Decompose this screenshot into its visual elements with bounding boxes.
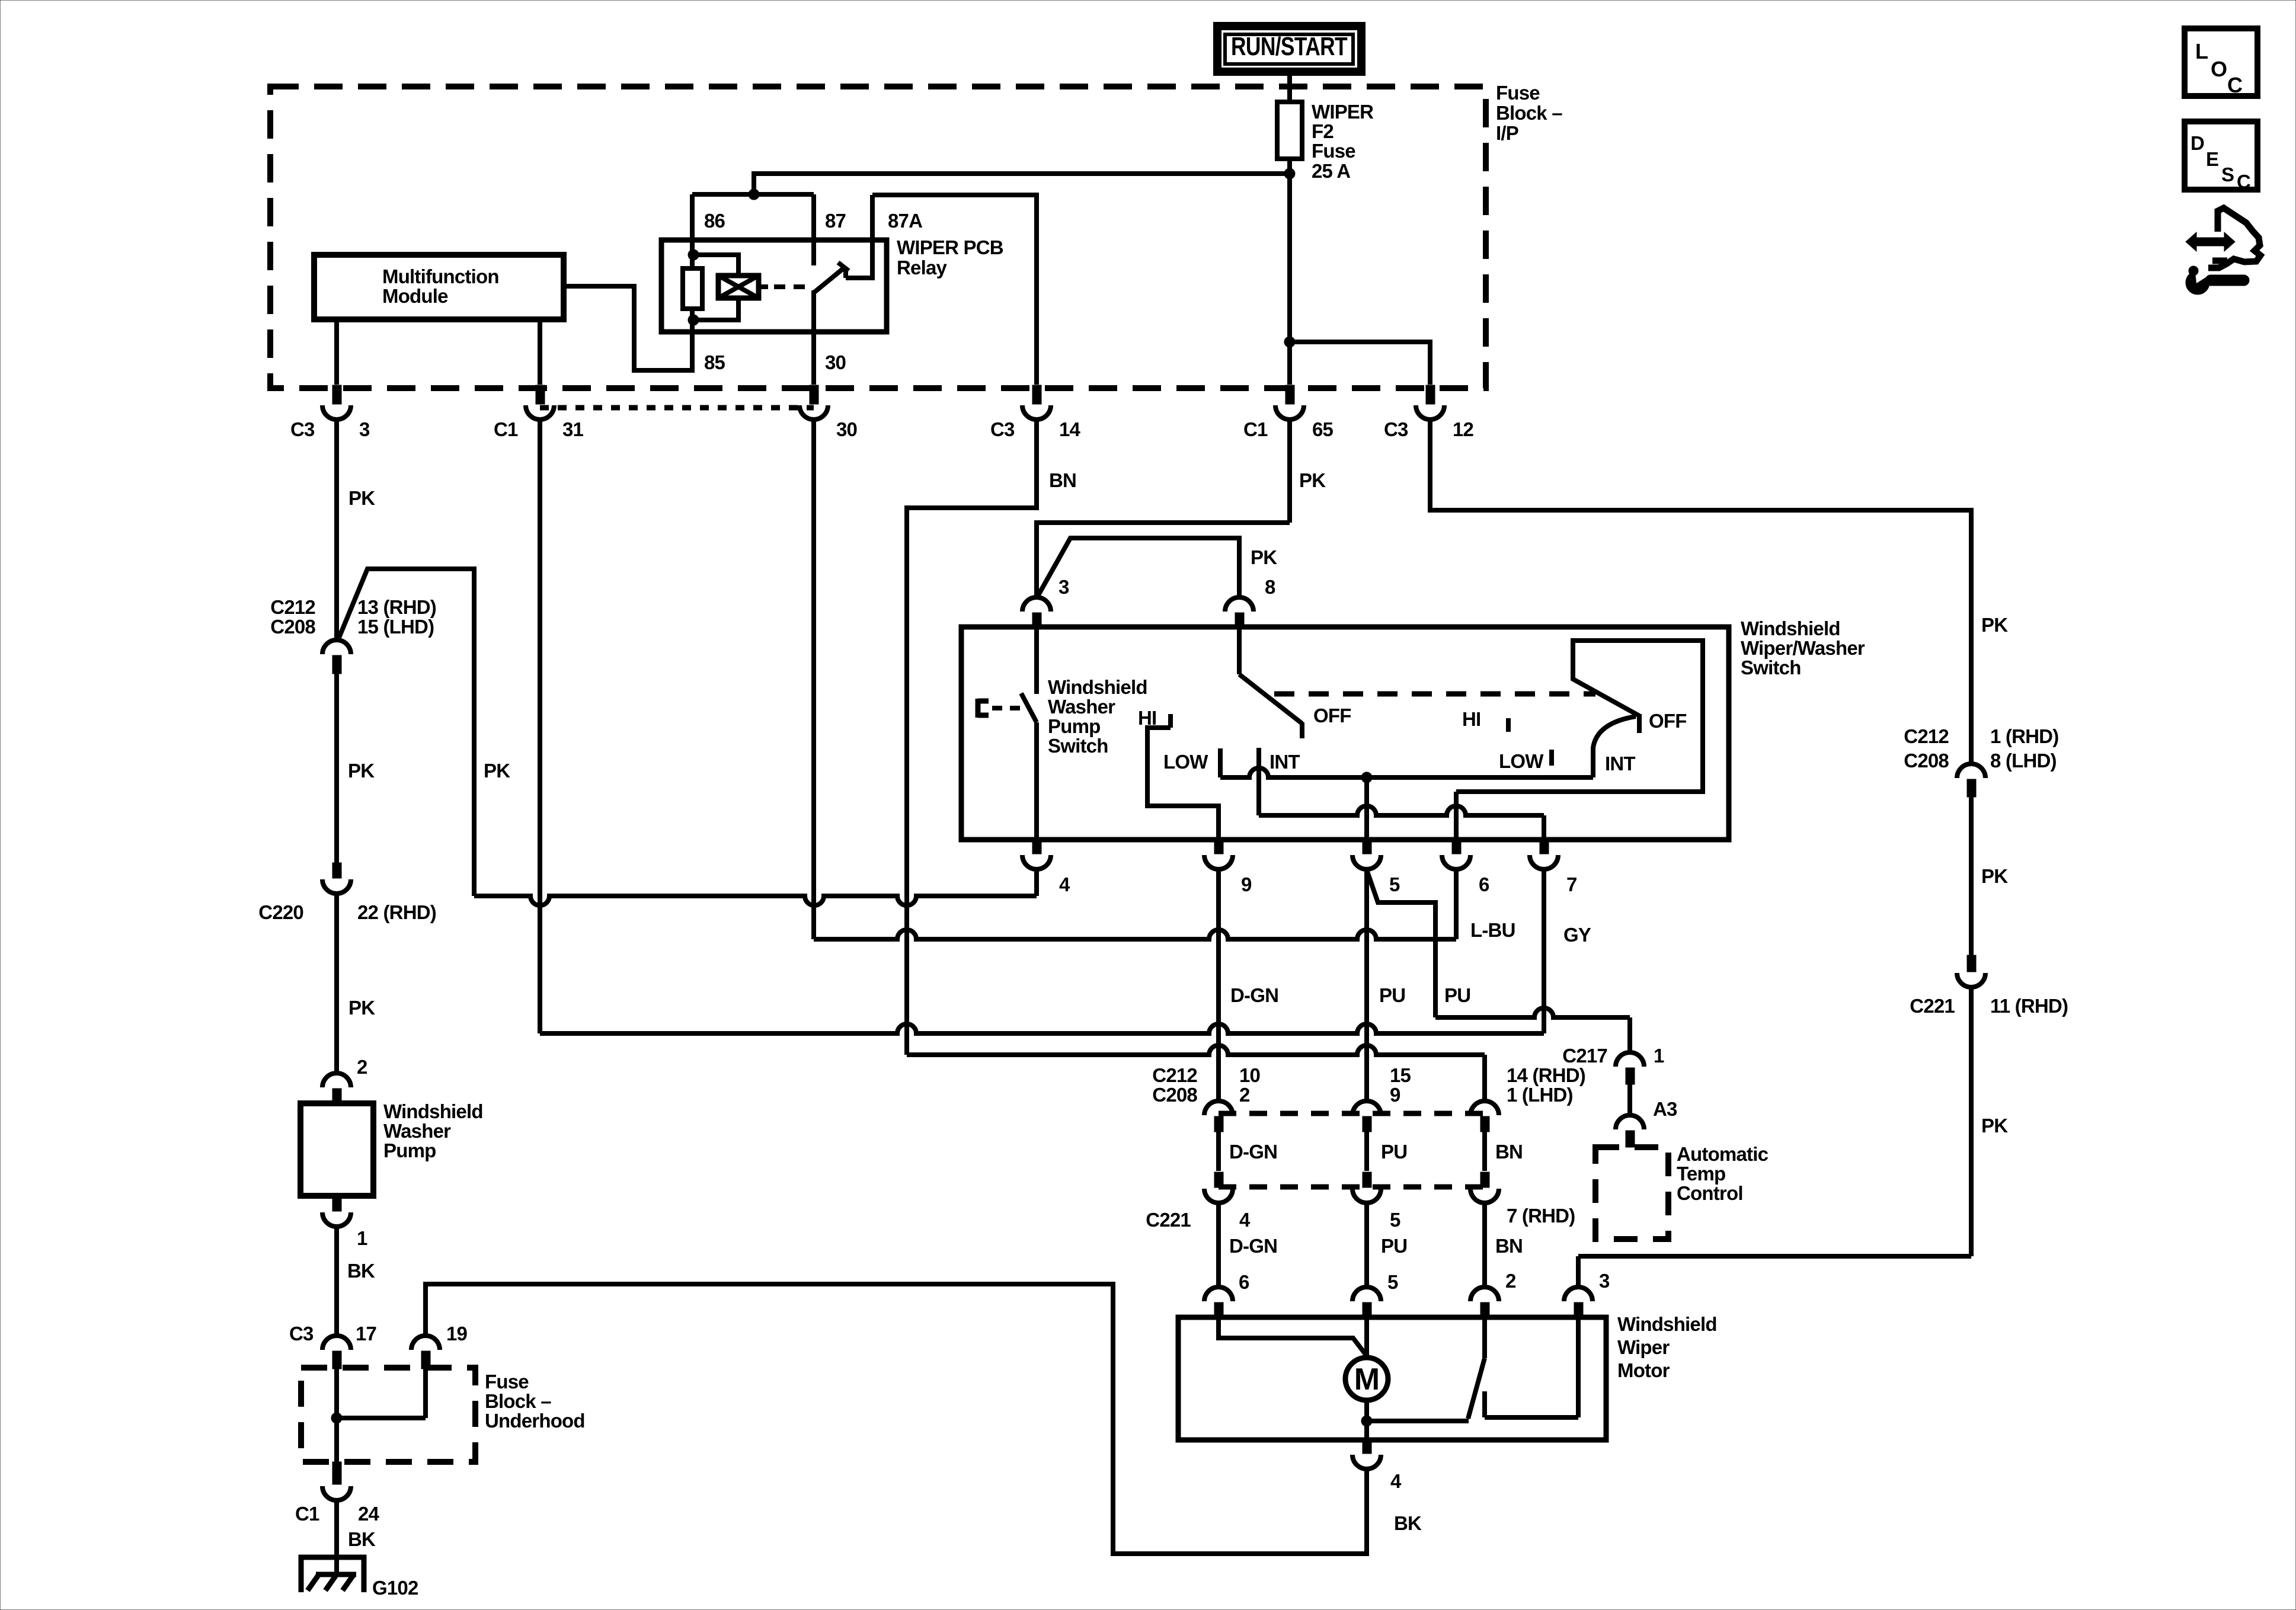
relay label 85 xyxy=(704,351,725,373)
wire col3 between rows xyxy=(1482,1132,1487,1171)
connector C3-17 xyxy=(289,1323,376,1369)
svg-text:PK: PK xyxy=(348,997,375,1019)
connector C220 xyxy=(258,863,436,923)
svg-text:30: 30 xyxy=(836,418,857,440)
connector switch pin 8 xyxy=(1225,576,1275,628)
svg-text:BN: BN xyxy=(1495,1141,1523,1163)
ground G102 xyxy=(299,1555,418,1599)
wire C1-31 to pin7 xyxy=(540,1024,1544,1033)
wire label BK pump xyxy=(347,1260,375,1282)
relay box WIPER PCB xyxy=(661,240,887,332)
wire C3-14 BN down xyxy=(907,418,1037,1055)
connector A3 xyxy=(1616,1098,1677,1147)
relay label 87 xyxy=(825,210,846,232)
svg-text:C220: C220 xyxy=(258,901,303,923)
svg-text:24: 24 xyxy=(358,1503,380,1525)
washer pump box xyxy=(300,1103,373,1196)
svg-text:22 (RHD): 22 (RHD) xyxy=(357,901,436,923)
left wiper switch pivot wire xyxy=(1237,627,1242,674)
wire right rail mid xyxy=(1969,797,1974,955)
left HI label xyxy=(1138,707,1156,729)
switch linkage dashes xyxy=(1274,692,1595,697)
svg-text:5: 5 xyxy=(1390,1209,1400,1231)
svg-text:C: C xyxy=(2227,73,2243,97)
svg-text:2: 2 xyxy=(1239,1084,1250,1106)
svg-text:O: O xyxy=(2211,57,2227,81)
svg-text:7 (RHD): 7 (RHD) xyxy=(1507,1205,1575,1227)
wire branch to C3-12 xyxy=(1290,342,1430,385)
svg-text:C: C xyxy=(2237,171,2250,193)
relay terminal 86 wire xyxy=(690,194,695,255)
motor park fixed contact xyxy=(1485,1319,1578,1417)
svg-text:2: 2 xyxy=(357,1056,367,1078)
svg-text:Windshield: Windshield xyxy=(1741,617,1840,639)
svg-text:C208: C208 xyxy=(1152,1084,1197,1106)
svg-text:C3: C3 xyxy=(290,418,315,440)
relay label 30 xyxy=(825,351,846,373)
wire pump to C3-17 xyxy=(334,1225,339,1336)
wire col1 to motor xyxy=(1216,1202,1221,1287)
svg-text:D: D xyxy=(2191,132,2204,154)
svg-text:6: 6 xyxy=(1479,873,1489,895)
branch pin3 to pin8 wire xyxy=(1038,538,1239,597)
svg-text:30: 30 xyxy=(825,351,846,373)
wire label PK jog xyxy=(484,760,510,782)
connector pump pin 1 xyxy=(322,1196,367,1249)
svg-text:13 (RHD): 13 (RHD) xyxy=(357,596,436,618)
labels C212/C208 mid xyxy=(1152,1064,1585,1106)
fuse block underhood dashed box xyxy=(301,1368,475,1462)
svg-text:I/P: I/P xyxy=(1496,122,1518,144)
washer pump label xyxy=(383,1100,483,1161)
wire label PU upper xyxy=(1379,984,1405,1006)
wire module pin C1-31 xyxy=(538,319,542,385)
svg-text:Wiper/Washer: Wiper/Washer xyxy=(1741,637,1865,659)
svg-text:A3: A3 xyxy=(1653,1098,1677,1120)
svg-text:Windshield: Windshield xyxy=(383,1100,483,1122)
connector C221 right xyxy=(1910,955,2068,1017)
svg-text:C221: C221 xyxy=(1910,995,1955,1017)
svg-text:31: 31 xyxy=(562,418,584,440)
svg-text:86: 86 xyxy=(704,210,725,232)
svg-text:BN: BN xyxy=(1495,1235,1523,1257)
svg-text:L-BU: L-BU xyxy=(1470,919,1515,941)
wire 17 inside fuse block xyxy=(334,1369,339,1462)
fuse block underhood label xyxy=(485,1371,585,1432)
svg-text:Fuse: Fuse xyxy=(1312,140,1355,162)
wire col2 to motor xyxy=(1364,1202,1369,1287)
wire pump switch to pin 4 xyxy=(1034,722,1039,840)
svg-text:BK: BK xyxy=(347,1260,375,1282)
svg-text:9: 9 xyxy=(1241,873,1252,895)
relay fixed contact 87A xyxy=(846,195,872,278)
wire motor M to junction xyxy=(1364,1400,1369,1440)
svg-text:1: 1 xyxy=(1654,1045,1664,1067)
wire label PU branch xyxy=(1444,984,1470,1006)
svg-text:Wiper: Wiper xyxy=(1617,1336,1670,1358)
connector C3 3 xyxy=(290,385,370,440)
svg-text:C1: C1 xyxy=(494,418,518,440)
svg-text:Fuse: Fuse xyxy=(1496,82,1540,104)
wire C1-24 to ground xyxy=(334,1499,339,1574)
svg-text:GY: GY xyxy=(1563,924,1591,946)
wire C1-31 down xyxy=(538,418,542,1033)
wire label PK right upper xyxy=(1981,614,2008,636)
connector pump pin 2 xyxy=(322,1056,367,1104)
relay coil top branch xyxy=(693,255,738,277)
fuse block I/P label xyxy=(1496,82,1562,144)
multifunction module label xyxy=(382,265,499,307)
DESC icon xyxy=(2185,121,2257,193)
branch C212-13 jog wire xyxy=(339,569,474,896)
svg-text:87A: 87A xyxy=(888,210,922,232)
wire C212 to C220 xyxy=(334,674,339,864)
relay coil xyxy=(718,276,759,298)
svg-text:87: 87 xyxy=(825,210,846,232)
wire label PK C1-65 xyxy=(1299,469,1326,491)
svg-text:PU: PU xyxy=(1379,984,1405,1006)
fuse F2 WIPER 25A xyxy=(1277,102,1302,159)
svg-text:Control: Control xyxy=(1677,1182,1743,1204)
windshield wiper/washer switch box xyxy=(961,627,1729,840)
svg-text:INT: INT xyxy=(1605,753,1635,774)
svg-text:5: 5 xyxy=(1389,873,1400,895)
svg-text:17: 17 xyxy=(356,1323,376,1345)
wire label GY xyxy=(1563,924,1591,946)
svg-text:BK: BK xyxy=(1394,1512,1422,1534)
labels C221 row xyxy=(1146,1205,1575,1231)
connector C212/C208 col2 xyxy=(1352,1101,1381,1132)
svg-text:Washer: Washer xyxy=(1048,696,1115,718)
wire label PK C3-3 xyxy=(348,487,375,509)
svg-text:Underhood: Underhood xyxy=(485,1410,585,1432)
wire motor pin5 internal xyxy=(1364,1319,1369,1358)
left wiper switch blade xyxy=(1239,674,1302,724)
relay label 87A xyxy=(888,210,922,232)
connector switch pin 5 xyxy=(1352,838,1400,895)
switch rail INT-pin7 xyxy=(1259,806,1544,840)
svg-text:M: M xyxy=(1354,1362,1380,1397)
labels colors mid1 xyxy=(1229,1141,1523,1163)
svg-text:Washer: Washer xyxy=(383,1120,451,1142)
svg-text:Windshield: Windshield xyxy=(1048,676,1147,698)
svg-text:D-GN: D-GN xyxy=(1230,984,1278,1006)
svg-text:4: 4 xyxy=(1390,1470,1402,1492)
wire col2 between rows xyxy=(1364,1132,1369,1171)
svg-text:Fuse: Fuse xyxy=(485,1371,529,1393)
relay coil top junction xyxy=(688,249,699,260)
svg-text:PK: PK xyxy=(1981,1115,2008,1137)
connector C221 col1 xyxy=(1204,1172,1233,1203)
svg-text:6: 6 xyxy=(1239,1271,1249,1293)
motor park switch blade xyxy=(1468,1319,1485,1419)
relay label 86 xyxy=(704,210,725,232)
connector C212/C208 col1 xyxy=(1204,1101,1233,1132)
wire label BN C3-14 xyxy=(1049,469,1076,491)
svg-text:PK: PK xyxy=(484,760,510,782)
junction relay 86/87 feed xyxy=(749,189,759,200)
svg-text:14: 14 xyxy=(1059,418,1081,440)
svg-text:F2: F2 xyxy=(1312,120,1334,142)
right HI tick xyxy=(1506,718,1511,732)
wire C217 to A3 xyxy=(1627,1084,1632,1115)
connector C1-24 xyxy=(295,1462,380,1525)
connector switch pin 4 xyxy=(1022,838,1070,895)
wire C1-65 to switch pin 3 xyxy=(1037,523,1290,597)
switch rail LOW-pin5 xyxy=(1220,768,1593,777)
wire C3-3 to C212 xyxy=(334,418,339,640)
svg-text:7: 7 xyxy=(1566,873,1577,895)
svg-text:PK: PK xyxy=(348,487,375,509)
connector C1 65 xyxy=(1243,385,1334,440)
washer pump switch label xyxy=(1048,676,1147,757)
washer pump switch contact wire xyxy=(1034,627,1039,694)
svg-text:Pump: Pump xyxy=(383,1140,436,1161)
svg-text:Temp: Temp xyxy=(1677,1163,1725,1185)
relay coil bottom junction xyxy=(688,315,699,325)
connector C1 31 xyxy=(494,385,584,440)
svg-text:8 (LHD): 8 (LHD) xyxy=(1990,750,2057,772)
wire fuse junction to relay coil feed xyxy=(754,174,1290,194)
connector switch pin 3 xyxy=(1022,576,1069,628)
svg-text:PK: PK xyxy=(348,760,375,782)
svg-text:L: L xyxy=(2195,39,2208,63)
fuse F2 label xyxy=(1312,101,1374,182)
relay terminal 87 wire xyxy=(811,194,816,265)
svg-text:25 A: 25 A xyxy=(1312,160,1350,182)
wire label BK ground xyxy=(348,1528,376,1550)
svg-text:C212: C212 xyxy=(1152,1064,1197,1086)
svg-text:C212: C212 xyxy=(1904,725,1949,747)
svg-text:2: 2 xyxy=(1505,1270,1516,1292)
wire motor pin6 internal xyxy=(1219,1319,1367,1356)
wire 17-19 link xyxy=(337,1416,426,1420)
dotted connector body line C1 xyxy=(540,405,814,411)
svg-text:INT: INT xyxy=(1269,751,1300,773)
connector C217 xyxy=(1562,1045,1664,1084)
left LOW contact tick xyxy=(1218,748,1223,777)
svg-text:D-GN: D-GN xyxy=(1229,1235,1277,1257)
svg-text:Switch: Switch xyxy=(1741,657,1801,678)
wire right rail lower xyxy=(1578,986,1971,1287)
wire pin7 GY down xyxy=(1542,868,1546,1033)
svg-text:C208: C208 xyxy=(270,616,315,638)
svg-text:8: 8 xyxy=(1265,576,1275,598)
right section feed path xyxy=(1456,641,1703,840)
multifunction module box xyxy=(314,255,564,319)
svg-text:BN: BN xyxy=(1049,469,1076,491)
svg-text:RUN/START: RUN/START xyxy=(1231,32,1348,61)
wire label PK right lower xyxy=(1981,1115,2008,1137)
connector C221 col3 xyxy=(1470,1172,1499,1203)
wiper motor label xyxy=(1617,1313,1717,1381)
svg-text:Automatic: Automatic xyxy=(1677,1143,1769,1165)
right LOW label xyxy=(1499,750,1544,772)
connector 30 xyxy=(800,385,857,440)
svg-text:Switch: Switch xyxy=(1048,735,1108,757)
svg-text:15: 15 xyxy=(1390,1064,1411,1086)
svg-text:PK: PK xyxy=(1981,865,2008,887)
wire module output to relay 85 xyxy=(564,286,692,370)
svg-text:4: 4 xyxy=(1059,873,1070,895)
adjust icon panel outline xyxy=(2208,208,2260,268)
connector switch pin 7 xyxy=(1530,838,1577,895)
left OFF label xyxy=(1313,705,1351,726)
svg-text:15 (LHD): 15 (LHD) xyxy=(357,616,434,638)
svg-text:14 (RHD): 14 (RHD) xyxy=(1507,1064,1585,1086)
svg-text:1 (RHD): 1 (RHD) xyxy=(1990,725,2058,747)
labels colors mid2 xyxy=(1229,1235,1523,1257)
svg-text:Motor: Motor xyxy=(1617,1359,1670,1381)
wire label L-BU xyxy=(1470,919,1515,941)
connector motor pin 5 xyxy=(1352,1271,1398,1319)
svg-text:Block –: Block – xyxy=(1496,102,1562,124)
svg-text:C208: C208 xyxy=(1904,750,1949,772)
svg-text:PU: PU xyxy=(1444,984,1470,1006)
svg-text:65: 65 xyxy=(1312,418,1334,440)
junction fuse output xyxy=(1284,168,1295,179)
LOC icon xyxy=(2185,28,2257,97)
left INT label xyxy=(1269,751,1300,773)
wire junction to park contact xyxy=(1367,1419,1469,1423)
right OFF label xyxy=(1649,710,1687,732)
connector body dashes C212/C208 mid xyxy=(1219,1111,1485,1116)
svg-text:D-GN: D-GN xyxy=(1229,1141,1277,1163)
wire C220 to pump pin 2 xyxy=(334,892,339,1073)
wire 30 to pin6 L-BU xyxy=(814,868,1456,939)
windshield wiper motor box xyxy=(1178,1317,1606,1440)
connector motor pin 3 xyxy=(1564,1270,1610,1319)
svg-text:E: E xyxy=(2206,148,2218,170)
connector C221 col2 xyxy=(1352,1172,1381,1203)
connector C212/C208 right xyxy=(1904,725,2058,797)
svg-text:9: 9 xyxy=(1390,1084,1400,1106)
svg-text:10: 10 xyxy=(1239,1064,1260,1086)
svg-text:C1: C1 xyxy=(1243,418,1268,440)
svg-text:PU: PU xyxy=(1381,1141,1407,1163)
wire RUN/START to fuse F2 xyxy=(1287,72,1292,104)
connector C212/C208 col3 xyxy=(1470,1101,1499,1132)
wire pin4 to C212-13 jog xyxy=(474,868,1037,905)
svg-text:Block –: Block – xyxy=(485,1390,551,1412)
svg-text:Multifunction: Multifunction xyxy=(382,265,499,287)
connector motor pin 2 xyxy=(1470,1270,1516,1319)
switch name label xyxy=(1741,617,1865,678)
connector switch pin 6 xyxy=(1442,838,1489,895)
relay terminal 85 wire xyxy=(690,320,695,370)
wire label PK left xyxy=(348,760,375,782)
svg-text:Pump: Pump xyxy=(1048,715,1100,737)
adjust icon arrow xyxy=(2186,232,2235,251)
right OFF contact tick xyxy=(1637,714,1642,733)
wire label PK right mid xyxy=(1981,865,2008,887)
relay terminal 30 wire xyxy=(811,290,816,385)
wire C1-65 down xyxy=(1287,418,1292,523)
connector C3 12 xyxy=(1384,385,1474,440)
branch pin5 to C217 xyxy=(1367,870,1630,1052)
svg-text:1 (LHD): 1 (LHD) xyxy=(1507,1084,1573,1106)
washer pump switch blade xyxy=(1021,693,1037,722)
svg-text:PU: PU xyxy=(1381,1235,1407,1257)
relay coil bottom branch xyxy=(693,298,738,320)
junction ignition feed split xyxy=(1284,337,1295,347)
svg-text:PK: PK xyxy=(1981,614,2008,636)
svg-text:3: 3 xyxy=(1059,576,1069,598)
wire col3 to motor xyxy=(1482,1202,1487,1287)
svg-text:C3: C3 xyxy=(289,1323,314,1345)
svg-text:12: 12 xyxy=(1453,418,1474,440)
svg-text:C3: C3 xyxy=(1384,418,1408,440)
ignition feed RUN/START box xyxy=(1217,26,1361,72)
svg-text:85: 85 xyxy=(704,351,725,373)
left OFF contact tick xyxy=(1300,722,1304,738)
left LOW label xyxy=(1163,751,1208,773)
svg-text:C217: C217 xyxy=(1562,1045,1607,1067)
svg-text:C3: C3 xyxy=(990,418,1015,440)
wire motor pin4 BK xyxy=(426,1284,1367,1554)
svg-text:11 (RHD): 11 (RHD) xyxy=(1990,995,2068,1017)
right INT label xyxy=(1605,753,1635,774)
wire col1 between rows xyxy=(1216,1132,1221,1171)
wire fuse to junction xyxy=(1287,159,1292,385)
wire pin5 down xyxy=(1364,868,1369,1101)
svg-text:LOW: LOW xyxy=(1163,751,1208,773)
automatic temp control dashed box xyxy=(1595,1147,1668,1239)
svg-text:Windshield: Windshield xyxy=(1617,1313,1717,1335)
svg-text:19: 19 xyxy=(446,1323,468,1345)
svg-text:Module: Module xyxy=(382,285,448,307)
wire label D-GN upper xyxy=(1230,984,1278,1006)
svg-text:OFF: OFF xyxy=(1313,705,1351,726)
svg-text:4: 4 xyxy=(1239,1209,1251,1231)
wire 30 down xyxy=(811,418,816,939)
connector C3 14 xyxy=(990,385,1081,440)
wire module pin C3-3 xyxy=(334,319,339,385)
right LOW tick xyxy=(1549,750,1554,766)
junction 17-19 xyxy=(331,1413,342,1423)
svg-text:BK: BK xyxy=(348,1528,376,1550)
motor M symbol xyxy=(1345,1358,1388,1400)
connector C212/C208 left xyxy=(270,596,436,674)
left INT contact wire xyxy=(1256,748,1261,815)
svg-text:5: 5 xyxy=(1387,1271,1398,1293)
washer pump switch actuator xyxy=(978,699,1021,718)
adjust icon wrench xyxy=(2186,266,2249,295)
wire pin9 down xyxy=(1216,868,1221,1101)
right HI label xyxy=(1462,708,1480,730)
wire relay 86-87 top link xyxy=(692,192,814,197)
relay switch blade xyxy=(814,263,849,293)
connector motor pin 6 xyxy=(1204,1271,1249,1319)
connector motor pin 4 xyxy=(1352,1440,1402,1492)
svg-text:HI: HI xyxy=(1462,708,1480,730)
relay resistor xyxy=(683,255,702,320)
wire label PK lower xyxy=(348,997,375,1019)
svg-text:G102: G102 xyxy=(372,1577,418,1599)
wire C3-12 down xyxy=(1430,418,1971,764)
svg-text:C212: C212 xyxy=(270,596,315,618)
svg-text:PK: PK xyxy=(1251,546,1277,568)
right section blade xyxy=(1593,716,1636,777)
svg-text:S: S xyxy=(2221,164,2234,185)
junction motor common xyxy=(1361,1416,1372,1426)
left HI contact xyxy=(1147,714,1219,840)
wire 87A to C3-14 xyxy=(872,195,1037,385)
wire label BK motor xyxy=(1394,1512,1422,1534)
svg-text:PK: PK xyxy=(1299,469,1326,491)
svg-text:3: 3 xyxy=(1599,1270,1610,1292)
relay coil linkage stub xyxy=(759,284,768,289)
